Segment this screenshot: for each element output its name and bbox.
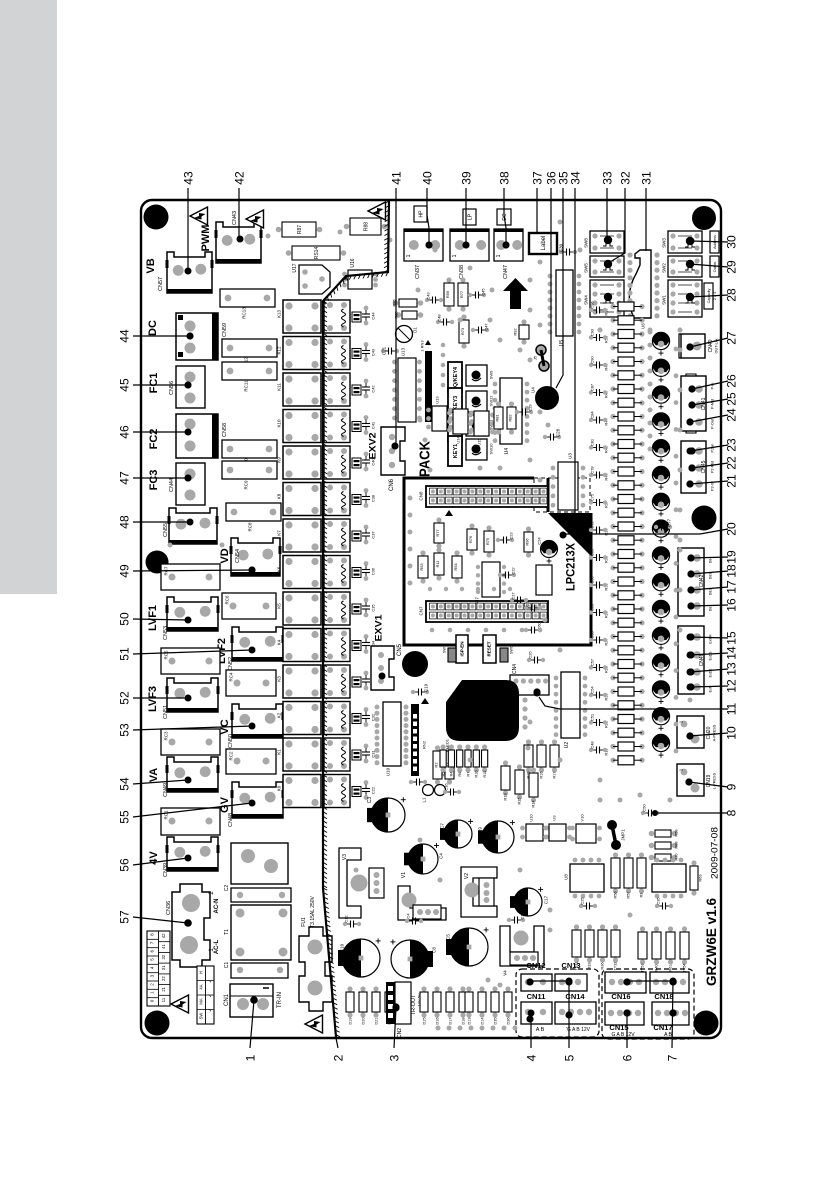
- svg-text:RS14: RS14: [314, 247, 320, 260]
- transistor V1: [398, 886, 446, 920]
- svg-text:CN13: CN13: [561, 961, 580, 970]
- fuse FU1: [299, 927, 332, 1011]
- resistor R21: [610, 716, 615, 721]
- connector CN51 (LVF3): [167, 678, 218, 712]
- IC U2 vertical: [561, 672, 580, 738]
- pad column right of U6: [654, 252, 659, 257]
- svg-text:2009-07-08: 2009-07-08: [709, 827, 720, 879]
- resistor R36: [610, 510, 615, 515]
- IC U17 (pentagon regulator): [299, 265, 330, 294]
- snubber capacitor C41: [364, 415, 369, 420]
- resistor R77b: [460, 277, 465, 282]
- electrolytic capacitor C86: [652, 466, 669, 483]
- resistors R15 R16 R17: [526, 739, 531, 744]
- connector CN13: [555, 974, 587, 991]
- relay contact block for K9: [324, 446, 350, 479]
- resistor R86: [393, 300, 399, 306]
- svg-text:CN18: CN18: [654, 992, 673, 1001]
- svg-text:51: 51: [117, 647, 131, 661]
- svg-text:R88: R88: [363, 222, 369, 231]
- svg-text:K12: K12: [277, 346, 282, 355]
- svg-text:K1: K1: [277, 749, 282, 755]
- svg-text:CN6: CN6: [389, 478, 395, 491]
- svg-text:R58: R58: [674, 830, 678, 837]
- capacitor C13: [511, 919, 515, 921]
- connector CN55: [169, 508, 217, 544]
- snubber diode for K13: [352, 312, 361, 322]
- label box KEY2: [448, 412, 462, 442]
- connector CN48 (GV): [232, 782, 283, 818]
- DIP switch SW8: [590, 231, 624, 253]
- capacitor C26: [531, 659, 535, 661]
- varistor VR1 block: [231, 843, 288, 884]
- capacitor C77: [658, 526, 662, 528]
- svg-text:CN58: CN58: [222, 423, 228, 437]
- svg-text:VA: VA: [148, 768, 160, 783]
- svg-text:RC6: RC6: [225, 595, 230, 604]
- callout 36 leader to buzzer: [550, 188, 552, 390]
- resistor R19: [610, 744, 615, 749]
- relay K9: [283, 446, 321, 479]
- connector CN16: [605, 972, 646, 993]
- resistor network RN3 (black bar): [425, 351, 432, 422]
- capacitor C28: [547, 436, 551, 438]
- svg-text:C48: C48: [436, 314, 441, 322]
- tact switch SW7: [448, 648, 456, 662]
- electrolytic capacitor C17: [514, 888, 542, 916]
- svg-text:D15: D15: [422, 1018, 426, 1025]
- svg-text:RN2: RN2: [421, 740, 426, 749]
- svg-text:'G A B 12V: 'G A B 12V: [566, 1027, 591, 1033]
- warning triangle near R88: [368, 202, 386, 220]
- resistor R87: [276, 227, 282, 233]
- snubber diode for K7: [352, 531, 361, 541]
- snubber capacitor C31: [364, 744, 369, 749]
- IC U11 vertical header: [383, 702, 401, 766]
- resistor R35: [610, 524, 615, 529]
- svg-text:C23: C23: [508, 532, 513, 540]
- DIP code table: [147, 931, 170, 1006]
- svg-text:KEY3: KEY3: [453, 396, 459, 410]
- svg-text:CN2: CN2: [397, 1028, 403, 1038]
- electrolytic capacitor C67: [652, 654, 669, 671]
- svg-text:CN19: CN19: [706, 774, 712, 787]
- resistor blocks RC13-RC8 column: [220, 289, 275, 307]
- svg-text:T1: T1: [224, 929, 230, 935]
- svg-text:R6: R6: [458, 772, 462, 777]
- svg-text:R56: R56: [613, 892, 617, 899]
- svg-text:C36: C36: [370, 567, 375, 575]
- svg-text:CN16: CN16: [611, 992, 630, 1001]
- svg-text:PWM: PWM: [200, 225, 212, 252]
- svg-text:C51: C51: [589, 713, 594, 721]
- label box RESET: [483, 635, 496, 663]
- resistor R28: [610, 620, 615, 625]
- svg-text:SW: SW: [199, 1013, 204, 1020]
- warning triangle near FU1: [305, 1015, 323, 1033]
- DIP switch SW3: [668, 231, 702, 253]
- mounting hole top-left: [144, 205, 169, 230]
- connector CN18: [650, 972, 689, 993]
- svg-text:5: 5: [562, 1054, 576, 1061]
- resistor R39: [610, 483, 615, 488]
- electrolytic capacitor C83: [652, 493, 669, 510]
- resistors R56c R57c R3: [613, 852, 618, 857]
- svg-text:C4: C4: [439, 853, 444, 859]
- DIP switch SW4: [590, 280, 624, 317]
- svg-text:C43: C43: [370, 348, 375, 356]
- svg-text:C37: C37: [370, 531, 375, 539]
- resistor R11: [436, 547, 441, 552]
- resistor R42: [610, 441, 615, 446]
- svg-text:D16: D16: [435, 1018, 439, 1025]
- resistor R24: [610, 675, 615, 680]
- svg-text:K3: K3: [277, 676, 282, 682]
- snubber capacitor C37: [364, 525, 369, 530]
- svg-text:K4: K4: [277, 639, 282, 645]
- svg-text:P-Out: P-Out: [710, 418, 714, 429]
- svg-text:SW3: SW3: [662, 238, 667, 248]
- svg-text:TY53: TY53: [640, 963, 644, 972]
- resistor R41: [610, 455, 615, 460]
- pads near U1: [522, 697, 527, 702]
- svg-text:32: 32: [618, 171, 632, 185]
- svg-text:K2: K2: [277, 712, 282, 718]
- svg-text:CN20: CN20: [706, 726, 712, 739]
- callout 20 leader to C24: [566, 529, 728, 534]
- svg-text:CN54: CN54: [235, 549, 241, 563]
- svg-text:49: 49: [117, 564, 131, 578]
- capacitor C21: [385, 350, 389, 352]
- svg-text:C35: C35: [370, 604, 375, 612]
- snubber diode for K12: [352, 349, 361, 359]
- tact switch SW11: [466, 415, 487, 436]
- callout 37 leader to Label box: [536, 188, 538, 233]
- connector CN39 (4V): [167, 837, 218, 871]
- resistor R49: [610, 345, 615, 350]
- IC U7: [482, 562, 500, 597]
- label box KEY3: [448, 388, 462, 418]
- svg-text:P-Mid: P-Mid: [710, 399, 714, 409]
- svg-text:45: 45: [117, 378, 131, 392]
- resistor R30: [610, 593, 615, 598]
- mounting hole bottom-right: [694, 1011, 719, 1036]
- triangle marker in module: [445, 510, 453, 516]
- resistor R63: [691, 860, 696, 865]
- electrolytic capacitor C5: [450, 928, 488, 966]
- svg-text:A-PRESS: A-PRESS: [712, 724, 716, 741]
- resistor R18: [610, 758, 615, 763]
- label box 'Label': [529, 233, 557, 254]
- svg-text:FC3: FC3: [148, 470, 160, 491]
- electrolytic capacitor C64: [652, 681, 669, 698]
- svg-text:GRZW6E v1.6: GRZW6E v1.6: [703, 898, 719, 986]
- svg-text:CN39: CN39: [163, 863, 169, 877]
- svg-text:R81: R81: [494, 414, 499, 422]
- svg-text:HP: HP: [418, 210, 424, 218]
- svg-text:CN59: CN59: [222, 323, 228, 337]
- snubber capacitor C42: [364, 379, 369, 384]
- callout 31 leader to U6: [645, 188, 647, 251]
- svg-text:1: 1: [243, 1054, 257, 1061]
- svg-text:U5: U5: [559, 340, 565, 347]
- connector CN17: [652, 1002, 689, 1025]
- capacitor C17b: [514, 599, 518, 601]
- svg-text:R3: R3: [639, 893, 643, 898]
- resistor R40: [610, 469, 615, 474]
- label box ISP-EN: [456, 635, 468, 663]
- svg-text:CN50: CN50: [228, 734, 234, 748]
- capacitor C47: [475, 329, 479, 331]
- resistor R26: [610, 648, 615, 653]
- resistor R52: [610, 304, 615, 309]
- svg-text:MA: MA: [199, 998, 204, 1004]
- svg-text:K13: K13: [277, 310, 282, 319]
- capacitor C43: [429, 299, 433, 301]
- svg-text:CN48: CN48: [228, 813, 234, 827]
- pads near SW blocks: [648, 330, 653, 335]
- svg-text:R2: R2: [441, 772, 445, 777]
- svg-text:LP: LP: [467, 213, 473, 220]
- svg-text:R54: R54: [453, 563, 458, 571]
- resistor R47: [610, 373, 615, 378]
- svg-text:U7: U7: [475, 597, 480, 603]
- tact switch SW9: [466, 365, 487, 386]
- warning triangle near PWM: [190, 207, 208, 225]
- svg-text:RC2: RC2: [229, 751, 234, 760]
- electrolytic capacitor C76: [652, 574, 669, 591]
- svg-text:K0: K0: [277, 785, 282, 791]
- svg-text:C84: C84: [589, 411, 594, 419]
- electrolytic capacitor C97: [652, 332, 669, 349]
- electrolytic capacitor C77: [652, 547, 669, 564]
- svg-text:P2-Mid: P2-Mid: [710, 461, 714, 473]
- snubber capacitor C32: [364, 707, 369, 712]
- svg-text:LPC213X: LPC213X: [563, 543, 577, 591]
- svg-text:46: 46: [117, 425, 131, 439]
- resistors TY53 R40 R61 TY54: [640, 926, 645, 931]
- connector CN57 (VB): [167, 252, 212, 293]
- connector CN46: [678, 626, 704, 694]
- svg-text:D18: D18: [461, 1018, 465, 1025]
- svg-text:C48: C48: [589, 741, 594, 749]
- snubber diode for K10: [352, 422, 361, 432]
- svg-text:CN17: CN17: [653, 1023, 672, 1032]
- mounting hole bottom-left: [145, 1011, 170, 1036]
- resistor R53: [420, 550, 425, 555]
- svg-text:SW1: SW1: [662, 295, 667, 305]
- IC U16: [342, 272, 347, 277]
- tact switch SW6: [500, 648, 508, 662]
- inductor L1: [423, 785, 434, 796]
- svg-text:R76: R76: [468, 535, 473, 543]
- svg-text:C60: C60: [589, 631, 594, 639]
- relay contact block for K12: [324, 337, 350, 370]
- svg-text:T3.15AL 250V: T3.15AL 250V: [310, 895, 316, 927]
- svg-text:R92: R92: [512, 328, 517, 336]
- connector CN47 (DC): [494, 229, 523, 261]
- capacitor C4b: [409, 920, 413, 922]
- svg-text:TR-IN: TR-IN: [277, 992, 283, 1008]
- svg-text:C21: C21: [382, 346, 387, 355]
- relay K2: [283, 702, 321, 735]
- connector CN58 (FC2) with black edge: [176, 414, 218, 458]
- resistor R45: [610, 400, 615, 405]
- svg-text:C57: C57: [589, 658, 594, 666]
- connector CN5 (EXV1): [371, 646, 394, 690]
- warning triangle bottom-left: [171, 995, 189, 1013]
- snubber capacitor C35: [364, 598, 369, 603]
- svg-text:C17: C17: [544, 895, 549, 904]
- electrolytic capacitor C10: [342, 939, 380, 977]
- connector CN52 (LVF2): [232, 627, 283, 661]
- svg-text:48: 48: [117, 515, 131, 529]
- svg-text:R11: R11: [435, 560, 440, 568]
- svg-text:C29: C29: [527, 404, 532, 412]
- electrolytic capacitor C61: [652, 708, 669, 725]
- svg-text:1: 1: [150, 991, 155, 994]
- power module U1 (black blob): [446, 680, 519, 741]
- svg-text:V3: V3: [342, 854, 348, 860]
- label box Address: [710, 231, 719, 253]
- connector CN12: [521, 974, 552, 991]
- relay K4: [283, 629, 321, 662]
- label box Out-in: [710, 256, 719, 277]
- relay K1: [283, 738, 321, 771]
- connector CN45: [681, 441, 706, 493]
- svg-text:U13: U13: [434, 396, 439, 404]
- transistor V3: [339, 848, 361, 918]
- svg-text:U13: U13: [401, 347, 406, 356]
- snubber capacitor C34: [364, 634, 369, 639]
- svg-text:11: 11: [161, 997, 166, 1002]
- capacitor C23: [500, 539, 504, 541]
- resistor R56b: [536, 565, 552, 595]
- svg-text:31: 31: [161, 965, 166, 970]
- svg-text:54: 54: [117, 777, 131, 791]
- snubber capacitor C33: [364, 671, 369, 676]
- svg-text:V10: V10: [579, 814, 584, 822]
- svg-text:RC1: RC1: [164, 810, 169, 819]
- svg-text:ExD3: ExD3: [708, 652, 712, 661]
- svg-text:SW4: SW4: [584, 295, 589, 305]
- connector CN11: [521, 1002, 552, 1024]
- dashed group box CN11-CN14: [516, 969, 599, 1037]
- snubber diode for K8: [352, 495, 361, 505]
- electrolytic capacitor C89: [652, 440, 669, 457]
- IC U12 vertical: [392, 360, 397, 365]
- svg-text:CN51: CN51: [163, 705, 169, 719]
- connector CN20 (A-PRESS): [677, 716, 704, 748]
- svg-text:CN56: CN56: [169, 381, 175, 395]
- snubber capacitor C43: [364, 342, 369, 347]
- svg-text:LVF3: LVF3: [147, 686, 159, 712]
- svg-text:JMP1: JMP1: [621, 829, 626, 841]
- svg-text:C42: C42: [370, 385, 375, 393]
- svg-text:43: 43: [181, 171, 195, 185]
- svg-text:EXV2: EXV2: [367, 433, 378, 460]
- connector CN6 (EXV2): [381, 427, 405, 475]
- resistor R73: [461, 314, 466, 319]
- svg-text:R73: R73: [460, 327, 465, 335]
- resistor R20: [610, 730, 615, 735]
- connector CN36 (AC-L/AC-N): [172, 884, 210, 967]
- resistor R54: [454, 550, 459, 555]
- resistor R51: [610, 318, 615, 323]
- capacitor C19: [415, 691, 419, 693]
- resistor R81: [496, 401, 501, 406]
- svg-text:D82: D82: [708, 589, 712, 596]
- svg-text:U4: U4: [504, 448, 510, 455]
- svg-text:D17: D17: [448, 1018, 452, 1025]
- svg-text:C1: C1: [224, 962, 230, 969]
- resistors R13 R15 R14: [503, 760, 508, 765]
- svg-text:C96: C96: [589, 301, 594, 309]
- relay contact block for K4: [324, 629, 350, 662]
- svg-text:H: H: [199, 971, 204, 974]
- svg-text:C50: C50: [641, 804, 646, 812]
- pin header CN8 (top row): [426, 486, 548, 507]
- resistor R76: [469, 523, 474, 528]
- snubber diode for K4: [352, 641, 361, 651]
- svg-text:C17: C17: [510, 592, 515, 600]
- relay K10: [283, 410, 321, 443]
- pad column left of U6: [627, 252, 632, 257]
- svg-text:22: 22: [161, 976, 166, 981]
- IC U5 vertical: [556, 270, 573, 336]
- capacitor C60: [528, 629, 532, 631]
- svg-text:3: 3: [150, 974, 155, 977]
- svg-text:C10: C10: [340, 943, 345, 952]
- dashed section near U3: [534, 478, 590, 512]
- svg-text:RC9: RC9: [244, 480, 249, 489]
- label box Q/KEY4: [448, 362, 462, 392]
- snubber capacitor C40: [364, 452, 369, 457]
- electrolytic capacitor C98: [652, 359, 669, 376]
- transistor V2: [461, 867, 497, 917]
- svg-text:L-PRESS: L-PRESS: [712, 772, 716, 789]
- svg-text:R40: R40: [654, 965, 658, 972]
- svg-text:C8: C8: [432, 947, 437, 953]
- resistor block RC7: [161, 564, 220, 590]
- resistor R44: [610, 414, 615, 419]
- svg-text:FU1: FU1: [301, 917, 307, 927]
- resistor R48: [610, 359, 615, 364]
- svg-text:C9: C9: [478, 827, 483, 833]
- svg-text:R16: R16: [539, 772, 543, 779]
- electrolytic capacitor C80: [652, 520, 669, 537]
- svg-text:SW8: SW8: [584, 238, 589, 248]
- connector CN19 (L-PRESS): [677, 764, 704, 796]
- svg-text:AC-L: AC-L: [214, 940, 220, 955]
- connector CN1 (TR-IN): [230, 984, 273, 1017]
- svg-text:DC: DC: [147, 320, 159, 336]
- svg-text:CN8: CN8: [419, 491, 424, 500]
- svg-text:VD: VD: [219, 548, 231, 563]
- resistor R82: [509, 401, 514, 406]
- resistor R77 in module: [436, 517, 441, 522]
- PACK module border: [404, 478, 591, 645]
- callout 35 leader to buzzer area: [556, 188, 563, 388]
- label box HP: [414, 206, 427, 222]
- link line CN12-CN13: [531, 980, 569, 982]
- connector CN49 (VA): [167, 757, 218, 792]
- IC U10: [520, 826, 525, 831]
- svg-text:37: 37: [530, 171, 544, 185]
- resistor R34: [610, 538, 615, 543]
- svg-text:CN49: CN49: [163, 783, 169, 797]
- capacitor C22b: [502, 574, 506, 576]
